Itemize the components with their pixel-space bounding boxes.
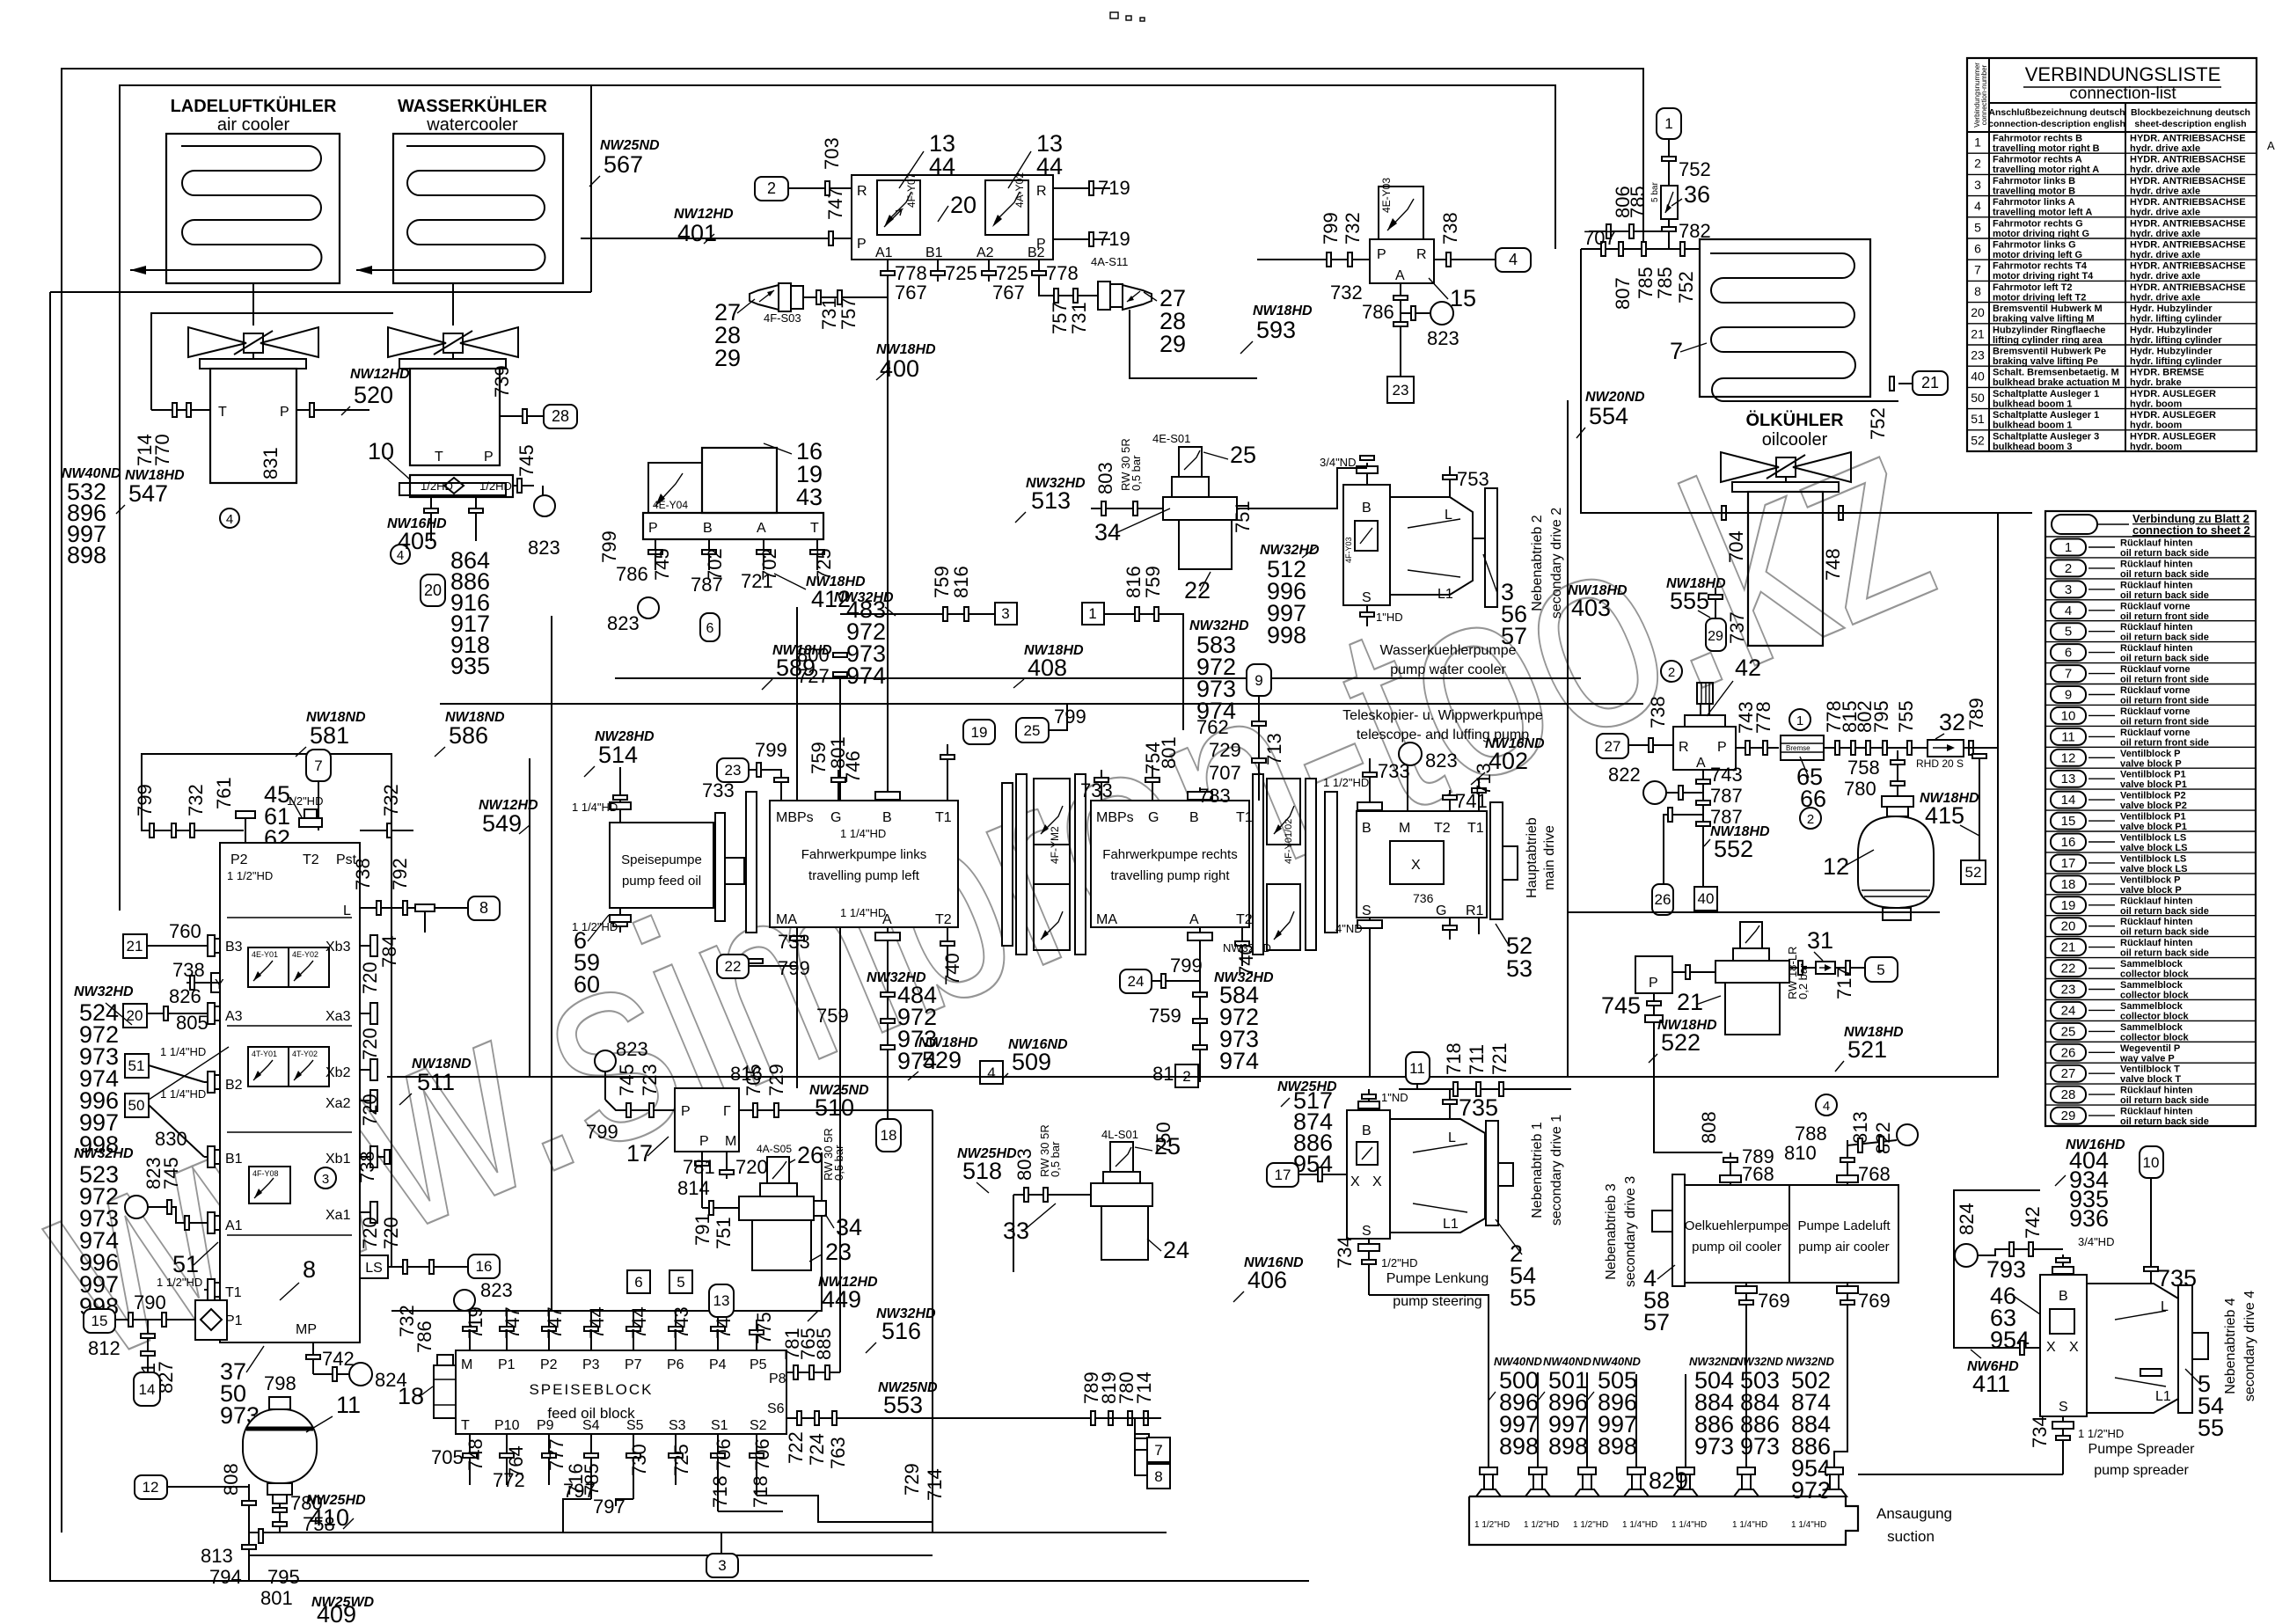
solenoid pair 4E-Y01 4E-Y02 [248, 947, 329, 987]
svg-text:759: 759 [1142, 566, 1164, 598]
svg-text:T2: T2 [1434, 821, 1451, 836]
svg-text:1"HD: 1"HD [1376, 611, 1403, 624]
tag 13 rounded above feed block [709, 1284, 734, 1317]
svg-text:T1: T1 [935, 810, 952, 825]
svg-text:706: 706 [751, 1438, 773, 1471]
svg-text:T2: T2 [935, 912, 952, 927]
svg-text:Schaltplatte Ausleger 3: Schaltplatte Ausleger 3 [1993, 431, 2099, 442]
svg-text:785: 785 [1654, 267, 1676, 299]
svg-text:718: 718 [750, 1475, 772, 1508]
svg-text:X: X [2069, 1340, 2079, 1355]
svg-text:21: 21 [2061, 940, 2076, 955]
svg-text:4E-Y03: 4E-Y03 [1380, 178, 1393, 213]
tag 50 square [125, 1094, 149, 1117]
LS port to tag 16 [360, 1255, 388, 1278]
svg-text:MBPs: MBPs [1096, 810, 1134, 825]
svg-text:823: 823 [480, 1279, 513, 1301]
wire 401 to valve 20 P [581, 238, 852, 239]
wire L port to tag 8 [360, 907, 468, 909]
wire 514 to feed pump [619, 767, 621, 823]
wire A down with 484 stack [887, 927, 889, 1082]
wire left border inner [50, 292, 1309, 1581]
fitting tee 727 [833, 653, 847, 657]
svg-text:748: 748 [1822, 548, 1844, 581]
svg-text:S: S [1362, 1224, 1372, 1239]
wire T2 down [947, 927, 948, 977]
svg-text:braking valve lifting M: braking valve lifting M [1993, 314, 2095, 325]
svg-text:lifting cylinder ring area: lifting cylinder ring area [1993, 335, 2103, 346]
svg-text:G: G [1436, 903, 1446, 918]
tag 3 rounded bottom [706, 1554, 738, 1577]
fitting rechts G B [1152, 765, 1153, 801]
svg-text:733: 733 [702, 779, 735, 801]
svg-text:18: 18 [881, 1127, 897, 1144]
svg-text:729: 729 [765, 1064, 787, 1096]
svg-text:28: 28 [552, 407, 569, 425]
svg-text:S1: S1 [711, 1418, 728, 1433]
svg-text:S3: S3 [669, 1418, 686, 1433]
fan motor 1 (air cooler fan) [188, 327, 318, 483]
svg-text:761: 761 [213, 777, 235, 809]
tag 1 square [1082, 603, 1104, 625]
svg-text:801: 801 [1158, 736, 1180, 769]
svg-text:720: 720 [359, 1028, 381, 1060]
wire A2 down [988, 260, 990, 282]
svg-text:11: 11 [2061, 729, 2075, 744]
tag 9 rounded [1247, 664, 1271, 696]
svg-text:Bremsventil Hubwerk Pe: Bremsventil Hubwerk Pe [1993, 347, 2106, 357]
spreader pilot frame [1954, 1190, 2040, 1348]
svg-text:MBPs: MBPs [776, 810, 814, 825]
svg-text:bulkhead boom 1: bulkhead boom 1 [1993, 421, 2072, 431]
svg-text:Rücklauf hinten: Rücklauf hinten [2120, 538, 2193, 549]
svg-text:hydr. drive axle: hydr. drive axle [2130, 271, 2200, 282]
svg-text:31: 31 [1807, 927, 1833, 954]
svg-text:oil return back side: oil return back side [2120, 654, 2209, 664]
svg-text:Ansaugung: Ansaugung [1876, 1505, 1952, 1522]
tag 5 square above feed block [669, 1270, 692, 1293]
flow indicator 36 [1668, 139, 1670, 186]
svg-text:733: 733 [1080, 779, 1113, 801]
wire P2 T2 entries [141, 830, 244, 831]
svg-text:793: 793 [1986, 1256, 2026, 1283]
svg-text:hydr. boom: hydr. boom [2130, 421, 2183, 431]
svg-text:22: 22 [2061, 962, 2076, 977]
sec3 pump bottom fittings 769 [1745, 1283, 1747, 1496]
svg-text:HYDR. ANTRIEBSACHSE: HYDR. ANTRIEBSACHSE [2130, 240, 2246, 251]
wire frame second border [120, 85, 1555, 911]
svg-text:HYDR. BREMSE: HYDR. BREMSE [2130, 368, 2204, 378]
svg-text:hydr. drive axle: hydr. drive axle [2130, 250, 2200, 260]
svg-text:28: 28 [2061, 1087, 2076, 1102]
svg-text:22: 22 [1184, 577, 1211, 604]
svg-text:valve block LS: valve block LS [2120, 864, 2187, 874]
svg-text:X: X [1411, 858, 1421, 873]
svg-text:831: 831 [260, 447, 282, 479]
svg-text:RHD 20 S: RHD 20 S [1916, 757, 1964, 770]
svg-text:55: 55 [2198, 1415, 2224, 1441]
svg-text:816: 816 [950, 566, 972, 598]
feed pump bottom stub [619, 908, 621, 933]
wire into filter24 [1013, 1194, 1091, 1196]
svg-text:Fahrmotor rechts A: Fahrmotor rechts A [1993, 155, 2082, 165]
svg-text:973: 973 [1740, 1433, 1780, 1459]
wire valve20 R right 719 [1053, 187, 1110, 189]
gauge 823 above valve 17 [595, 1050, 616, 1072]
svg-text:MA: MA [776, 912, 797, 927]
svg-text:522: 522 [1661, 1029, 1701, 1056]
svg-text:12: 12 [143, 1479, 159, 1496]
svg-text:704: 704 [1725, 530, 1747, 563]
svg-text:Rücklauf vorne: Rücklauf vorne [2120, 601, 2190, 611]
svg-text:bulkhead brake actuation M: bulkhead brake actuation M [1993, 377, 2120, 388]
svg-text:755: 755 [1895, 700, 1917, 733]
svg-text:518: 518 [962, 1158, 1002, 1184]
svg-text:4: 4 [1974, 199, 1981, 213]
svg-text:509: 509 [1012, 1049, 1051, 1075]
tag 51 square [125, 1054, 149, 1078]
svg-text:B1: B1 [225, 1152, 243, 1167]
svg-text:743: 743 [1710, 764, 1743, 786]
svg-text:717: 717 [1833, 967, 1855, 999]
svg-text:hydr. drive axle: hydr. drive axle [2130, 186, 2200, 196]
svg-text:32: 32 [1939, 709, 1965, 735]
svg-text:11: 11 [336, 1392, 361, 1418]
svg-text:Nebenabtrieb 2: Nebenabtrieb 2 [1530, 515, 1545, 611]
svg-text:1 1/4"HD: 1 1/4"HD [1791, 1520, 1826, 1530]
accumulator 12 [1858, 796, 1934, 920]
svg-text:736: 736 [1413, 891, 1434, 905]
svg-text:823: 823 [616, 1038, 648, 1060]
svg-text:A1: A1 [875, 245, 893, 260]
svg-text:719: 719 [1098, 228, 1130, 250]
svg-text:1 1/2"HD: 1 1/2"HD [1323, 776, 1369, 789]
svg-text:Xb3: Xb3 [326, 940, 351, 955]
svg-text:oil return back side: oil return back side [2120, 569, 2209, 580]
svg-text:P9: P9 [537, 1418, 554, 1433]
svg-text:747: 747 [501, 1306, 523, 1339]
svg-text:B1: B1 [925, 245, 943, 260]
svg-text:521: 521 [1847, 1036, 1887, 1063]
pressure switch 4F-S03 [750, 283, 803, 325]
svg-text:21: 21 [1677, 989, 1703, 1015]
svg-text:11: 11 [1409, 1060, 1425, 1077]
svg-text:744: 744 [628, 1306, 650, 1339]
svg-text:781: 781 [683, 1156, 715, 1178]
svg-text:795: 795 [1870, 700, 1892, 733]
svg-text:734: 734 [2029, 1416, 2051, 1448]
svg-text:778: 778 [1752, 701, 1774, 734]
svg-text:Schalt. Bremsenbetaetig. M: Schalt. Bremsenbetaetig. M [1993, 368, 2119, 378]
svg-text:787: 787 [691, 574, 723, 596]
svg-text:Rücklauf hinten: Rücklauf hinten [2120, 917, 2193, 927]
svg-text:714: 714 [1133, 1372, 1155, 1404]
svg-text:725: 725 [670, 1444, 692, 1476]
svg-text:Rücklauf hinten: Rücklauf hinten [2120, 896, 2193, 906]
svg-text:valve block T: valve block T [2120, 1074, 2181, 1085]
label circled 4 second [391, 545, 410, 564]
svg-text:753: 753 [1457, 468, 1489, 490]
svg-text:P: P [1036, 237, 1046, 252]
svg-text:NW40ND: NW40ND [1543, 1355, 1592, 1368]
svg-text:1 1/2"HD: 1 1/2"HD [227, 869, 273, 882]
svg-text:3: 3 [718, 1557, 726, 1574]
svg-text:3: 3 [2065, 582, 2072, 597]
svg-text:764: 764 [505, 1445, 527, 1478]
svg-text:707: 707 [1209, 762, 1241, 784]
svg-text:2: 2 [1807, 812, 1814, 827]
svg-text:travelling motor left A: travelling motor left A [1993, 208, 2092, 218]
svg-text:Fahrmotor rechts T4: Fahrmotor rechts T4 [1993, 261, 2088, 272]
svg-text:NW32ND: NW32ND [1689, 1355, 1738, 1368]
spreader top stub [2062, 1255, 2064, 1275]
fitting tee above [1589, 230, 1669, 232]
svg-text:0,5 bar: 0,5 bar [832, 1145, 845, 1181]
svg-text:S: S [1362, 903, 1372, 918]
svg-text:40: 40 [1698, 890, 1715, 907]
svg-text:P1: P1 [498, 1357, 516, 1372]
svg-text:40: 40 [1971, 369, 1985, 384]
svg-text:braking valve lifting Pe: braking valve lifting Pe [1993, 356, 2098, 367]
gauge 823 LS [454, 1290, 475, 1311]
svg-text:hydr. lifting cylinder: hydr. lifting cylinder [2130, 314, 2222, 325]
MP drain 742 gauge 824 [312, 1342, 314, 1374]
svg-text:406: 406 [1247, 1267, 1287, 1293]
svg-text:17: 17 [626, 1140, 653, 1167]
tag 8 square [1135, 1450, 1147, 1475]
watercooler coil [356, 146, 545, 270]
label circled 3 [315, 1167, 336, 1189]
svg-text:B: B [1362, 1123, 1372, 1138]
svg-text:NW32HD: NW32HD [74, 1146, 134, 1161]
svg-text:pump steering: pump steering [1393, 1294, 1481, 1309]
watermark www.simbron-too.kz [0, 356, 1970, 1416]
steering line tee [1399, 1088, 1571, 1090]
svg-text:513: 513 [1031, 487, 1071, 514]
wire brake to flow 32 [1824, 747, 1928, 749]
svg-text:745: 745 [516, 444, 538, 477]
svg-text:Xb2: Xb2 [326, 1065, 351, 1080]
filter21 drain 522 [1653, 993, 1655, 1020]
svg-text:hydr. drive axle: hydr. drive axle [2130, 208, 2200, 218]
svg-text:Rücklauf vorne: Rücklauf vorne [2120, 685, 2190, 696]
pressure switch 4A-S11 [1091, 255, 1152, 310]
svg-text:935: 935 [450, 653, 490, 679]
filter 21 assembly [1635, 922, 1789, 1035]
gauge 823 745 at A1 [125, 1196, 148, 1218]
tag 7 square [1135, 1418, 1147, 1450]
svg-text:25: 25 [1230, 442, 1256, 468]
svg-text:759: 759 [816, 1005, 849, 1027]
svg-text:974: 974 [1219, 1048, 1259, 1074]
svg-text:769: 769 [1758, 1290, 1790, 1312]
svg-text:813: 813 [201, 1545, 233, 1567]
svg-text:769: 769 [1858, 1290, 1891, 1312]
svg-text:1 1/2"HD: 1 1/2"HD [157, 1276, 202, 1289]
svg-text:NW32ND: NW32ND [1786, 1355, 1835, 1368]
svg-text:Hydr. Hubzylinder: Hydr. Hubzylinder [2130, 325, 2213, 335]
svg-text:4F-S03: 4F-S03 [764, 311, 801, 325]
oil cooler coil [1710, 253, 1898, 401]
svg-text:1 1/4"HD: 1 1/4"HD [840, 827, 886, 840]
svg-text:510: 510 [815, 1094, 854, 1121]
svg-text:42: 42 [1735, 655, 1761, 681]
svg-text:20: 20 [950, 192, 977, 218]
svg-text:A1: A1 [225, 1218, 243, 1233]
svg-text:13: 13 [713, 1292, 730, 1309]
svg-text:973: 973 [1791, 1477, 1831, 1503]
fitting air fan T [151, 409, 210, 411]
tag 2 [755, 177, 788, 201]
table connection to sheet 2 [2045, 511, 2256, 1127]
svg-text:720: 720 [359, 1217, 381, 1249]
svg-text:581: 581 [310, 722, 349, 749]
svg-text:S: S [2059, 1400, 2068, 1415]
svg-text:L1: L1 [1437, 587, 1453, 602]
pump Fahrwerkpumpe links [770, 801, 958, 927]
svg-text:767: 767 [992, 282, 1025, 304]
svg-text:720: 720 [735, 1156, 768, 1178]
svg-text:oil return back side: oil return back side [2120, 948, 2209, 959]
svg-text:Ventilblock P: Ventilblock P [2120, 874, 2180, 885]
svg-text:MP: MP [296, 1322, 317, 1337]
svg-text:Ventilblock P: Ventilblock P [2120, 749, 2180, 759]
svg-text:50: 50 [1971, 391, 1985, 405]
valve unit 10 under water fan [399, 450, 513, 497]
svg-text:connection-number: connection-number [1980, 64, 1988, 125]
wire vertical P2 feed [551, 616, 552, 1311]
svg-text:1"ND: 1"ND [1381, 1091, 1408, 1104]
svg-text:HYDR. ANTRIEBSACHSE: HYDR. ANTRIEBSACHSE [2130, 176, 2246, 187]
svg-text:HYDR. ANTRIEBSACHSE: HYDR. ANTRIEBSACHSE [2130, 261, 2246, 272]
svg-text:P3: P3 [582, 1357, 600, 1372]
svg-text:7: 7 [1670, 338, 1683, 364]
svg-text:3: 3 [1001, 605, 1009, 622]
svg-text:M: M [1399, 821, 1410, 836]
wire tag 11 stem [1416, 1084, 1418, 1089]
svg-text:T: T [461, 1418, 470, 1433]
svg-text:742: 742 [2022, 1206, 2044, 1239]
svg-text:A: A [2267, 139, 2275, 152]
svg-text:Blockbezeichnung deutsch: Blockbezeichnung deutsch [2131, 107, 2250, 118]
wire 549 vertical [529, 758, 530, 1077]
svg-text:808: 808 [220, 1463, 242, 1496]
solenoid 4F-Y07 [877, 172, 920, 235]
feed block top stubs [469, 1311, 471, 1350]
svg-text:936: 936 [2069, 1205, 2109, 1232]
svg-text:NW40ND: NW40ND [1494, 1355, 1543, 1368]
tag 12 rounded [135, 1475, 167, 1499]
svg-text:8: 8 [1974, 284, 1981, 298]
svg-text:13: 13 [2061, 772, 2076, 786]
tag 8 rounded [468, 896, 500, 920]
wire 513 into filter22 [1091, 508, 1163, 509]
wire valve42 P to brake filter [1736, 747, 1779, 749]
svg-text:HYDR. ANTRIEBSACHSE: HYDR. ANTRIEBSACHSE [2130, 197, 2246, 208]
svg-text:789: 789 [1965, 698, 1987, 730]
fitting T1 stub from tags 19 25 [963, 720, 995, 744]
svg-text:60: 60 [574, 971, 600, 998]
svg-text:Xa1: Xa1 [326, 1208, 351, 1223]
svg-text:401: 401 [677, 220, 717, 246]
wire accumulator drain vertical [248, 1484, 250, 1581]
svg-text:4L-S01: 4L-S01 [1101, 1128, 1138, 1141]
svg-text:22: 22 [725, 958, 742, 975]
svg-text:449: 449 [822, 1286, 861, 1313]
svg-text:400: 400 [880, 355, 919, 382]
P1 check valve [195, 1300, 227, 1340]
valve17 bottom stubs [701, 1152, 703, 1208]
solenoid pair 4T-Y01 4T-Y02 [248, 1047, 329, 1086]
svg-text:Ventilblock LS: Ventilblock LS [2120, 853, 2186, 864]
wire right vertical mid [1567, 400, 1569, 1077]
svg-text:713: 713 [1263, 733, 1285, 765]
svg-text:T2: T2 [303, 852, 319, 867]
wire to tag 26 [1664, 815, 1703, 884]
svg-text:14: 14 [139, 1381, 156, 1398]
pump Spreader sec drive 4 [2040, 1275, 2208, 1416]
svg-text:1: 1 [2065, 540, 2072, 555]
svg-text:hydr. boom: hydr. boom [2130, 442, 2183, 452]
svg-text:19: 19 [971, 724, 988, 741]
tag 20 square [123, 1004, 147, 1028]
coupling plates feed pump [715, 813, 725, 921]
svg-text:connection to sheet 2: connection to sheet 2 [2132, 523, 2250, 537]
tag 11 rounded [1406, 1052, 1430, 1084]
wire fan circuit [151, 313, 393, 410]
svg-text:1: 1 [1974, 135, 1981, 150]
svg-text:705: 705 [431, 1446, 464, 1468]
label circled 4 right [1816, 1094, 1837, 1116]
svg-text:connection-description english: connection-description english [1988, 119, 2125, 129]
svg-text:Rücklauf hinten: Rücklauf hinten [2120, 1107, 2193, 1117]
svg-text:hydr. drive axle: hydr. drive axle [2130, 165, 2200, 175]
svg-text:16: 16 [2061, 835, 2076, 850]
svg-text:S6: S6 [767, 1401, 785, 1416]
tag 6 square above feed block [627, 1270, 650, 1293]
solenoid 4F-Y08 [249, 1167, 290, 1203]
svg-text:P: P [1649, 976, 1658, 991]
svg-text:4T-Y02: 4T-Y02 [292, 1050, 318, 1058]
svg-text:1 1/4"HD: 1 1/4"HD [1672, 1520, 1707, 1530]
svg-text:720: 720 [359, 1094, 381, 1126]
fittings 789 819 780 714 [1091, 1411, 1095, 1425]
svg-text:737: 737 [1726, 611, 1748, 644]
svg-text:745: 745 [651, 548, 673, 581]
svg-text:B: B [1189, 810, 1199, 825]
svg-text:2: 2 [2065, 561, 2072, 576]
svg-text:799: 799 [1320, 212, 1342, 245]
svg-text:787: 787 [1710, 785, 1743, 807]
sec3 pump top fittings [1730, 1152, 1731, 1185]
fitting B stub [887, 787, 889, 801]
svg-text:P10: P10 [494, 1418, 520, 1433]
svg-text:R: R [857, 184, 867, 199]
svg-text:12: 12 [1823, 853, 1849, 880]
svg-text:711: 711 [1466, 1044, 1488, 1075]
svg-text:786: 786 [413, 1320, 435, 1353]
svg-text:L1: L1 [2155, 1389, 2171, 1404]
svg-text:732: 732 [1330, 282, 1363, 304]
svg-text:sheet-description english: sheet-description english [2134, 119, 2246, 129]
pump Fahrwerkpumpe rechts [1091, 801, 1249, 927]
table VERBINDUNGSLISTE connection-list [1967, 58, 2275, 452]
svg-text:Oelkuehlerpumpe: Oelkuehlerpumpe [1685, 1218, 1789, 1233]
wire bottom horizontal 1768 [249, 1555, 933, 1556]
wire frame top border outer [62, 69, 1643, 1533]
steering top stub [1368, 1089, 1370, 1110]
sec2 pump stubs [1366, 463, 1368, 485]
